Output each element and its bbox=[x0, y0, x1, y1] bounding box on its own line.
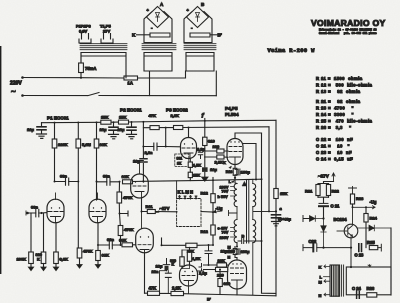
resistor 2,2K upper drive bbox=[205, 156, 228, 158]
secondary tap mark bbox=[368, 265, 371, 268]
capacitor 100u upper bbox=[235, 169, 240, 175]
resistor 5,6M bbox=[77, 123, 79, 140]
mains terminal lower bbox=[21, 94, 24, 97]
resistor 2,2K bottom bbox=[171, 291, 184, 295]
resistor 68K horizontal lower bbox=[122, 243, 133, 247]
wire mains lower with switch bbox=[23, 93, 217, 96]
label A winding bbox=[242, 182, 247, 187]
transformer core lines right bbox=[184, 44, 216, 50]
bias input terminal bbox=[303, 216, 310, 222]
resistor R25 bbox=[369, 246, 378, 250]
resistor 470K (under 5,6M line) bbox=[77, 248, 82, 258]
resistor R23 bbox=[349, 187, 357, 195]
outer B+ rail right corner down bbox=[275, 120, 277, 295]
ground at bus left bbox=[37, 134, 47, 138]
resistor 22K lower drive bbox=[204, 264, 228, 266]
heater pins T1P5 bbox=[101, 34, 113, 44]
tube P5 PL504 lower bbox=[228, 260, 247, 289]
ground right bus bbox=[127, 134, 137, 138]
capacitor 16u coupling node bbox=[142, 147, 144, 182]
resistor 1,5K bbox=[188, 162, 192, 167]
capacitor 100u lower bbox=[235, 249, 240, 255]
resistor R26 bbox=[367, 293, 377, 297]
wire rail2 drop to coupling bbox=[142, 128, 144, 147]
primary center tap bbox=[229, 207, 238, 216]
capacitor 16u right bus bbox=[127, 127, 136, 130]
capacitor 80+80u bbox=[272, 215, 281, 218]
bottom rail B' bbox=[145, 293, 277, 296]
resistor R21 bbox=[316, 185, 320, 196]
capacitor 16u mid bus bbox=[109, 127, 118, 130]
secondary upper coil bbox=[253, 184, 256, 207]
wire R21R22 bottom join bbox=[318, 197, 329, 203]
B+ rail 2 bbox=[143, 122, 269, 128]
capacitor 2,2n bbox=[143, 146, 180, 148]
secondary top to feedback bbox=[252, 179, 254, 183]
wire cluster joins bbox=[182, 250, 190, 269]
wire K to winding bbox=[137, 34, 151, 36]
resistor 470K lower of divider bbox=[119, 214, 122, 226]
secondary center wire to a-node bbox=[253, 207, 276, 220]
rail2 right corner down bbox=[268, 127, 270, 212]
resistor 310 upper bbox=[203, 137, 207, 145]
capacitor 33n input bbox=[28, 212, 47, 214]
resistor 68K cathode V1b bbox=[97, 223, 99, 251]
wire grid bias distribution bbox=[143, 179, 261, 181]
node a bbox=[275, 210, 277, 212]
wire fuse to mains bbox=[80, 53, 82, 78]
parts list bbox=[316, 76, 373, 162]
heater pins P1P2P3 bbox=[79, 34, 91, 44]
capacitor 33n lower bbox=[98, 244, 121, 246]
wire PL504a anode hook bbox=[235, 133, 262, 139]
wire R21R22 top join bbox=[318, 182, 334, 184]
capacitor C21 bbox=[319, 202, 328, 204]
junction bbox=[80, 77, 82, 79]
wire collector bbox=[352, 207, 354, 224]
tube V1b ECC81 bbox=[89, 199, 106, 223]
bridge B enclosure bbox=[184, 12, 212, 43]
wire grid-leak drop bbox=[165, 128, 167, 147]
wire primary bottom to PL504b bbox=[235, 243, 237, 260]
resistor 2,2K (rail2) bbox=[174, 126, 183, 130]
fuse 75mA bbox=[79, 63, 84, 73]
capacitor 33n upper-right bbox=[97, 180, 144, 183]
primary taps lower bbox=[231, 228, 235, 238]
tube V1a ECC81 bbox=[47, 199, 64, 223]
capacitor C23 bbox=[359, 244, 362, 252]
resistor R24 bbox=[365, 207, 367, 213]
resistor R12 upper bbox=[212, 178, 214, 194]
resistor 15K lower cluster h bbox=[162, 244, 214, 246]
wire f vertical bbox=[204, 119, 206, 138]
wire box to -Ug node bbox=[201, 211, 213, 214]
capacitor C22 bbox=[312, 244, 314, 252]
ground 470K bbox=[77, 265, 83, 269]
resistor 15K second (inline bus) bbox=[119, 120, 129, 124]
transformer core lines left bbox=[80, 44, 127, 50]
ground 820K bbox=[41, 267, 47, 271]
resistor 220 lower drive bbox=[204, 269, 228, 271]
resistor 47K bottom bbox=[148, 291, 160, 295]
capacitor C24 bbox=[357, 291, 360, 298]
output transformer primary upper coil bbox=[234, 184, 237, 207]
ground mid bus bbox=[109, 134, 119, 138]
tube P4 PL504 upper bbox=[227, 139, 243, 165]
resistor R22 bbox=[326, 185, 330, 196]
resistor 15K right rail bbox=[274, 189, 278, 199]
scan edge artifact bbox=[0, 46, 1, 274]
resistor 1,5K lower cluster bbox=[187, 252, 191, 261]
bridge B winding bar bbox=[190, 33, 210, 37]
diode D3 bbox=[358, 225, 391, 231]
wire drop to connector box bbox=[176, 181, 178, 199]
ground 3,3K bbox=[53, 267, 59, 271]
connector dashed box bbox=[177, 199, 201, 227]
capacitor 16u at bus left bbox=[37, 127, 46, 130]
resistor 220K bbox=[54, 123, 56, 139]
dashed network box upper bbox=[175, 154, 189, 167]
mains terminal upper bbox=[21, 76, 24, 79]
tube V2b ECC82 bbox=[131, 174, 149, 198]
resistor 68K (left) bbox=[96, 122, 98, 139]
wire B' to winding bbox=[210, 34, 217, 36]
wire V2b to tube V3 bbox=[141, 212, 143, 229]
rectifier bridge B diamond bbox=[187, 7, 209, 28]
transistor internals bbox=[348, 226, 353, 237]
bus junction dots bbox=[54, 122, 56, 124]
fuse 1A bbox=[124, 76, 138, 80]
capacitor B coupling bbox=[238, 239, 262, 244]
secondary lower coil bbox=[253, 220, 256, 243]
resistor 3,3K bbox=[55, 223, 57, 252]
capacitor 33n upper-left bbox=[55, 181, 79, 183]
ground 100K bbox=[28, 267, 34, 271]
resistor 310 lower bbox=[219, 270, 221, 279]
resistor 100K bbox=[30, 213, 32, 252]
wire PL504b cathode to rail bbox=[236, 289, 238, 295]
diode D1 bbox=[310, 216, 324, 222]
transistor BC184 circle bbox=[344, 224, 358, 238]
speaker transformer secondary box bbox=[346, 267, 391, 295]
diode D2 vertical bbox=[321, 219, 326, 248]
bridge A diode bbox=[156, 13, 160, 22]
B+ bus rail bbox=[42, 120, 277, 122]
resistor 68K horizontal upper bbox=[123, 180, 133, 184]
arrow up 27V bbox=[332, 173, 335, 182]
output transformer primary lower coil bbox=[234, 220, 237, 243]
capacitor 2,2u upper bbox=[197, 151, 203, 159]
secondary winding box A bbox=[144, 53, 172, 72]
transformer core bbox=[247, 180, 249, 243]
transformer core lines middle bbox=[142, 44, 176, 50]
transformer primary box bbox=[81, 53, 126, 78]
resistor 15K first (inline bus) bbox=[101, 120, 111, 124]
resistor 820K bbox=[43, 213, 45, 252]
capacitor 16u cathode PL504a bbox=[204, 157, 206, 177]
input terminal bbox=[26, 212, 29, 215]
speaker transformer core bbox=[342, 265, 344, 296]
ground cathode PL504a bbox=[202, 177, 209, 181]
capacitor 22n bbox=[160, 271, 169, 294]
resistor R13 upper bbox=[233, 168, 237, 175]
resistor 47K (rail2) bbox=[150, 126, 159, 130]
resistor 220 upper bbox=[205, 150, 228, 152]
transistor base wire bbox=[337, 230, 348, 232]
ground 68K bbox=[95, 265, 101, 269]
wire right edge down bbox=[390, 228, 392, 295]
capacitor 16u lower drive bbox=[205, 245, 212, 265]
ground 80+80u bbox=[272, 222, 281, 226]
secondary winding box B bbox=[186, 53, 214, 72]
wire bias emitter row bbox=[303, 238, 351, 267]
wire psu loop verticals bbox=[150, 71, 217, 96]
resistor R12 lower bbox=[212, 212, 214, 225]
primary taps upper bbox=[231, 187, 235, 197]
wire PL504a screen bbox=[243, 144, 256, 180]
resistor R13 lower bbox=[233, 249, 237, 255]
wire 15K plate lower bbox=[161, 238, 163, 245]
connector pins bbox=[180, 196, 197, 200]
wire V3 cathode down bbox=[144, 253, 146, 293]
speaker transformer winding hatch bbox=[330, 265, 340, 296]
tube V3 ECC82 bbox=[136, 228, 154, 253]
bridge A enclosure bbox=[144, 12, 172, 43]
right rail from hook bbox=[262, 133, 277, 293]
resistor 470K upper of divider bbox=[118, 182, 120, 192]
capacitor 16u lower cluster bbox=[165, 266, 169, 271]
wire anode to primary top bbox=[235, 178, 237, 184]
wire mains upper bbox=[23, 77, 186, 80]
resistor 820K cluster bbox=[180, 257, 184, 266]
capacitor 2,2u lower bbox=[198, 264, 204, 272]
wire secondary to B rail bbox=[252, 243, 254, 295]
rectifier bridge A diamond bbox=[147, 7, 169, 28]
divider tap stub bbox=[120, 211, 129, 216]
tube V4 phase splitter bbox=[180, 265, 198, 286]
resistor R11 bbox=[142, 198, 178, 212]
tube V2a ECC82 bbox=[181, 138, 197, 159]
bridge A winding bar bbox=[150, 33, 170, 37]
resistor 15K upper cluster bbox=[188, 172, 192, 177]
bridge B diode bbox=[196, 13, 200, 22]
